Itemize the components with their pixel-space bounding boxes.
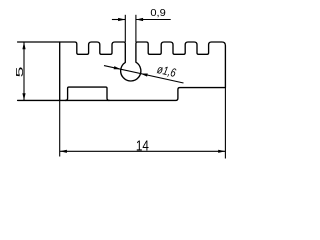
svg-text:5: 5 [15, 67, 26, 78]
svg-text:0,9: 0,9 [150, 8, 166, 19]
svg-text:14: 14 [136, 139, 149, 155]
